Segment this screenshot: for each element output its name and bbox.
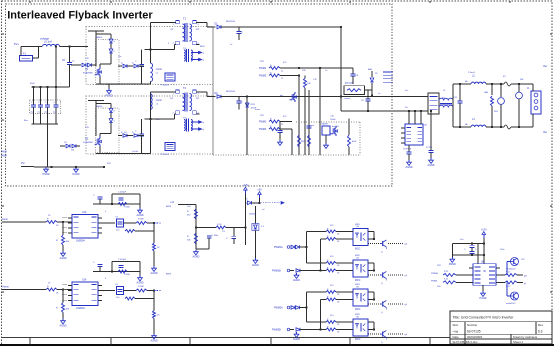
svg-text:R: R xyxy=(56,308,58,310)
svg-text:PWM4: PWM4 xyxy=(259,128,267,131)
svg-text:<Val: <Val xyxy=(453,329,459,333)
svg-text:1K: 1K xyxy=(337,273,340,275)
svg-text:Vo+: Vo+ xyxy=(405,90,409,92)
svg-text:2u2: 2u2 xyxy=(38,112,41,114)
svg-text:C10: C10 xyxy=(330,116,335,118)
svg-text:33T: 33T xyxy=(196,29,200,31)
svg-text:R 56K: R 56K xyxy=(138,286,144,288)
svg-text:Q2: Q2 xyxy=(85,138,89,141)
svg-text:C: C xyxy=(135,131,137,133)
svg-text:3: 3 xyxy=(198,94,200,96)
svg-text:LM2904: LM2904 xyxy=(76,307,85,310)
svg-text:TG: TG xyxy=(183,48,186,50)
svg-text:4N25: 4N25 xyxy=(355,255,361,257)
svg-text:AGND: AGND xyxy=(406,166,413,169)
svg-text:PWM2A: PWM2A xyxy=(274,307,283,310)
svg-text:1K: 1K xyxy=(337,241,340,243)
svg-text:C 470pF: C 470pF xyxy=(118,259,127,261)
svg-text:R: R xyxy=(327,236,329,238)
svg-text:RV1: RV1 xyxy=(494,111,499,113)
svg-text:R: R xyxy=(270,126,272,128)
svg-text:MOC: MOC xyxy=(355,339,361,341)
svg-text:MOC: MOC xyxy=(355,309,361,311)
svg-text:C: C xyxy=(93,262,95,264)
svg-text:1n: 1n xyxy=(230,44,232,46)
svg-text:AGND: AGND xyxy=(428,164,435,167)
svg-text:L2: L2 xyxy=(156,104,159,106)
svg-text:LM285: LM285 xyxy=(321,124,328,126)
svg-text:LM2904: LM2904 xyxy=(76,240,85,243)
svg-text:R: R xyxy=(187,211,189,213)
svg-text:ref: ref xyxy=(312,124,315,127)
svg-text:22: 22 xyxy=(281,71,284,73)
svg-text:R: R xyxy=(327,297,329,299)
svg-text:100K: 100K xyxy=(352,141,357,143)
svg-text:coil in: coil in xyxy=(156,99,163,102)
svg-text:sens: sens xyxy=(166,206,172,208)
svg-text:R: R xyxy=(270,73,272,75)
svg-text:Title: Grid Connected PV micr: Title: Grid Connected PV micro Inverter xyxy=(453,315,515,319)
svg-text:C 470pF: C 470pF xyxy=(118,192,127,194)
svg-text:C: C xyxy=(475,249,477,251)
svg-text:R15: R15 xyxy=(302,70,307,72)
svg-text:C5: C5 xyxy=(62,60,66,62)
svg-text:1n: 1n xyxy=(378,93,380,95)
svg-text:63-07135: 63-07135 xyxy=(467,329,481,333)
svg-text:TC4420: TC4420 xyxy=(161,85,170,87)
svg-text:R: R xyxy=(187,236,189,238)
svg-text:g6: g6 xyxy=(405,334,408,336)
svg-text:10n: 10n xyxy=(118,56,121,58)
svg-text:TG: TG xyxy=(183,118,186,120)
svg-text:C12: C12 xyxy=(313,79,318,81)
svg-text:csense: csense xyxy=(344,98,351,100)
svg-text:10n: 10n xyxy=(116,297,119,299)
svg-text:C: C xyxy=(135,61,137,63)
svg-text:1K: 1K xyxy=(48,215,51,217)
svg-text:1: 1 xyxy=(173,24,175,26)
svg-text:g5: g5 xyxy=(405,304,408,306)
svg-text:5: 5 xyxy=(105,211,107,213)
svg-text:100n: 100n xyxy=(500,249,504,251)
svg-text:R 56K: R 56K xyxy=(138,219,144,221)
svg-text:C11: C11 xyxy=(454,97,459,99)
svg-text:D1: D1 xyxy=(215,23,219,26)
svg-text:2: 2 xyxy=(168,43,170,45)
svg-text:1K: 1K xyxy=(56,293,59,295)
svg-text:P: P xyxy=(203,60,205,62)
svg-text:PWM1: PWM1 xyxy=(259,67,267,70)
svg-text:10K: 10K xyxy=(437,286,441,288)
svg-text:AGND: AGND xyxy=(293,279,300,282)
svg-text:22R: 22R xyxy=(260,61,264,63)
svg-text:SW: SW xyxy=(520,79,523,81)
svg-text:L2: L2 xyxy=(472,75,475,78)
svg-text:PGND: PGND xyxy=(106,95,113,98)
svg-text:470: 470 xyxy=(330,256,334,258)
svg-text:Q: Q xyxy=(381,283,383,285)
svg-text:Elec: Elec xyxy=(24,120,28,122)
svg-text:22: 22 xyxy=(281,124,284,126)
svg-text:P: P xyxy=(203,129,205,131)
svg-text:30/03/2009: 30/03/2009 xyxy=(467,335,482,339)
svg-text:PWM1B: PWM1B xyxy=(272,270,281,273)
svg-text:C: C xyxy=(464,249,466,251)
svg-text:U6: U6 xyxy=(356,317,360,319)
svg-text:Vref: Vref xyxy=(187,206,191,208)
svg-text:22R: 22R xyxy=(437,265,441,267)
svg-text:C: C xyxy=(45,102,47,104)
svg-text:+12: +12 xyxy=(170,202,175,204)
svg-text:D8: D8 xyxy=(71,150,75,152)
svg-text:4A: 4A xyxy=(465,123,468,126)
svg-text:gL: gL xyxy=(524,283,527,285)
svg-text:1K: 1K xyxy=(337,332,340,334)
svg-text:R: R xyxy=(327,229,329,231)
svg-text:Sheet 1: Sheet 1 xyxy=(513,340,523,344)
svg-text:R: R xyxy=(327,289,329,291)
svg-text:Rev: Rev xyxy=(538,323,544,327)
svg-text:L1: L1 xyxy=(156,73,159,75)
svg-text:1K: 1K xyxy=(337,294,340,296)
svg-text:R 22: R 22 xyxy=(444,279,449,281)
svg-text:0R1: 0R1 xyxy=(107,163,112,165)
svg-text:2u2: 2u2 xyxy=(31,112,34,114)
svg-text:PWML: PWML xyxy=(431,281,438,283)
svg-text:C3: C3 xyxy=(115,217,119,219)
svg-text:R 56K: R 56K xyxy=(124,207,130,209)
svg-text:R: R xyxy=(47,219,49,221)
svg-text:Number: Number xyxy=(467,323,477,327)
svg-text:BAS16: BAS16 xyxy=(96,36,103,39)
svg-text:1K: 1K xyxy=(337,324,340,326)
svg-text:22R: 22R xyxy=(260,115,264,117)
svg-text:AGND: AGND xyxy=(293,338,300,341)
svg-text:W-07135_R6.3.dsn: W-07135_R6.3.dsn xyxy=(453,340,478,344)
svg-text:sens: sens xyxy=(166,274,172,276)
svg-text:22: 22 xyxy=(281,78,284,80)
svg-text:C: C xyxy=(93,195,95,197)
svg-text:1%: 1% xyxy=(222,231,225,233)
svg-text:470: 470 xyxy=(330,285,334,287)
svg-text:1K: 1K xyxy=(337,265,340,267)
svg-text:D: D xyxy=(246,199,248,201)
svg-text:BAS: BAS xyxy=(368,68,373,71)
svg-text:R: R xyxy=(47,286,49,288)
svg-text:1.2: 1.2 xyxy=(261,226,265,228)
svg-text:4N25: 4N25 xyxy=(355,314,361,316)
svg-text:U5: U5 xyxy=(356,287,360,289)
svg-text:10K: 10K xyxy=(187,240,191,242)
svg-text:Q: Q xyxy=(381,342,383,344)
svg-text:PGND: PGND xyxy=(73,173,80,176)
svg-text:PWM2: PWM2 xyxy=(259,75,267,78)
svg-text:1n: 1n xyxy=(325,70,327,72)
svg-text:470: 470 xyxy=(330,315,334,317)
svg-text:LAB: LAB xyxy=(484,91,489,94)
svg-text:T1: T1 xyxy=(183,17,187,21)
svg-text:AGND: AGND xyxy=(60,325,67,328)
svg-text:AGND: AGND xyxy=(192,256,199,259)
svg-text:12V: 12V xyxy=(521,259,525,261)
svg-text:4A: 4A xyxy=(465,80,468,83)
svg-text:1K: 1K xyxy=(337,234,340,236)
svg-text:Vo-: Vo- xyxy=(405,107,408,109)
svg-text:10K: 10K xyxy=(66,241,70,243)
svg-text:C9: C9 xyxy=(361,100,365,102)
svg-text:Vsens: Vsens xyxy=(2,285,9,288)
svg-text:LF: LF xyxy=(443,90,446,92)
svg-text:U4: U4 xyxy=(356,258,360,260)
svg-text:PWM: PWM xyxy=(1,156,7,158)
svg-text:PWM2B: PWM2B xyxy=(272,329,281,332)
svg-text:TP PS: TP PS xyxy=(426,147,433,149)
svg-text:C: C xyxy=(114,51,116,53)
svg-text:R: R xyxy=(270,119,272,121)
svg-text:AGND: AGND xyxy=(60,257,67,260)
svg-text:PGND: PGND xyxy=(43,173,50,176)
svg-text:C: C xyxy=(241,32,243,34)
svg-text:mmbt2907: mmbt2907 xyxy=(506,302,516,305)
svg-text:FQA9N90: FQA9N90 xyxy=(83,141,94,144)
svg-text:MOC: MOC xyxy=(355,248,361,250)
svg-text:2u2: 2u2 xyxy=(45,112,48,114)
svg-text:1K: 1K xyxy=(56,225,59,227)
svg-text:U2A: U2A xyxy=(82,279,87,282)
svg-text:R 22: R 22 xyxy=(444,271,449,273)
svg-text:U3: U3 xyxy=(356,226,360,228)
svg-text:C: C xyxy=(31,102,33,104)
svg-text:C8: C8 xyxy=(356,75,360,77)
svg-text:10K: 10K xyxy=(307,83,311,85)
svg-text:470: 470 xyxy=(330,225,334,227)
svg-text:2u2: 2u2 xyxy=(53,112,56,114)
svg-text:Vac: Vac xyxy=(543,131,548,134)
svg-text:1K: 1K xyxy=(157,247,160,249)
svg-text:gH: gH xyxy=(524,276,527,278)
svg-text:MUR1560: MUR1560 xyxy=(226,21,236,23)
svg-text:R: R xyxy=(327,268,329,270)
svg-text:R 56K: R 56K xyxy=(124,274,130,276)
svg-text:MUR1560: MUR1560 xyxy=(226,91,236,93)
svg-text:T2: T2 xyxy=(183,86,187,90)
svg-text:F2: F2 xyxy=(503,76,506,78)
svg-text:RCD: RCD xyxy=(251,104,256,106)
svg-text:PWM1A: PWM1A xyxy=(274,246,283,249)
svg-text:D7: D7 xyxy=(64,142,68,144)
svg-text:R: R xyxy=(270,65,272,67)
svg-text:PWM: PWM xyxy=(1,152,7,154)
svg-text:bss123: bss123 xyxy=(332,126,339,128)
svg-text:+: + xyxy=(60,83,62,85)
svg-text:R 1K: R 1K xyxy=(217,224,222,226)
svg-text:AGND: AGND xyxy=(252,264,259,267)
svg-text:10T: 10T xyxy=(170,29,174,31)
svg-text:g4: g4 xyxy=(405,275,408,277)
svg-text:33T: 33T xyxy=(196,98,200,100)
svg-text:F1: F1 xyxy=(23,52,26,55)
svg-text:R7 0.05: R7 0.05 xyxy=(345,83,354,85)
svg-text:U1A: U1A xyxy=(82,211,87,214)
svg-text:C: C xyxy=(38,102,40,104)
svg-text:R: R xyxy=(56,240,58,242)
svg-text:Isens: Isens xyxy=(255,109,261,111)
svg-text:Date: Date xyxy=(453,335,459,339)
svg-text:+12V: +12V xyxy=(481,229,487,232)
svg-text:FQA9N90: FQA9N90 xyxy=(83,72,94,75)
svg-text:dvr: dvr xyxy=(280,94,283,97)
svg-text:C: C xyxy=(241,102,243,104)
svg-text:PGND: PGND xyxy=(480,297,487,300)
svg-text:Vac: Vac xyxy=(543,65,548,68)
svg-text:AGND: AGND xyxy=(151,272,158,275)
svg-text:1u: 1u xyxy=(72,61,75,63)
svg-text:Isens: Isens xyxy=(2,218,9,221)
svg-text:TOP249: TOP249 xyxy=(403,149,412,151)
svg-text:R: R xyxy=(327,327,329,329)
svg-text:5: 5 xyxy=(105,278,107,280)
svg-text:1K: 1K xyxy=(337,302,340,304)
svg-text:TC4420: TC4420 xyxy=(161,154,170,156)
svg-text:AGND: AGND xyxy=(151,340,158,343)
svg-text:4K7: 4K7 xyxy=(187,215,192,217)
svg-text:BAS16: BAS16 xyxy=(96,105,103,108)
svg-text:P: P xyxy=(203,122,205,124)
svg-text:+12V: +12V xyxy=(242,184,248,187)
svg-text:R: R xyxy=(327,260,329,262)
svg-text:PWM3: PWM3 xyxy=(259,121,267,124)
svg-text:1K: 1K xyxy=(48,283,51,285)
svg-text:AGND: AGND xyxy=(137,282,144,285)
svg-text:IR: IR xyxy=(483,269,486,273)
svg-text:LM285: LM285 xyxy=(249,214,256,216)
svg-text:Q: Q xyxy=(381,312,383,314)
svg-text:D: D xyxy=(114,111,116,113)
svg-text:Drawn by nsubrama: Drawn by nsubrama xyxy=(513,335,538,339)
svg-text:J1: J1 xyxy=(527,88,530,90)
svg-text:PV+: PV+ xyxy=(14,42,19,46)
svg-text:mmbt2222: mmbt2222 xyxy=(506,267,516,270)
svg-text:L5 1uH: L5 1uH xyxy=(44,41,52,44)
svg-text:MOC: MOC xyxy=(355,280,361,282)
svg-text:U5: U5 xyxy=(424,125,428,127)
svg-text:10T: 10T xyxy=(170,98,174,100)
svg-text:C: C xyxy=(54,102,56,104)
svg-text:10u: 10u xyxy=(460,239,463,241)
svg-text:C: C xyxy=(226,238,228,240)
svg-text:PWMH: PWMH xyxy=(431,273,438,275)
svg-text:3: 3 xyxy=(198,24,200,26)
svg-text:C 100n: C 100n xyxy=(212,235,220,237)
svg-text:Interleaved Flyback Inverter: Interleaved Flyback Inverter xyxy=(7,9,153,21)
svg-text:L3: L3 xyxy=(472,118,475,121)
svg-text:100nF: 100nF xyxy=(330,119,336,121)
svg-text:400V: 400V xyxy=(30,83,35,85)
svg-text:MUR: MUR xyxy=(200,46,205,48)
svg-text:R: R xyxy=(327,319,329,321)
svg-text:470: 470 xyxy=(283,116,287,118)
svg-text:D2: D2 xyxy=(215,92,219,95)
svg-text:2.2mH: 2.2mH xyxy=(468,72,475,74)
svg-text:D: D xyxy=(114,41,116,43)
svg-text:10K: 10K xyxy=(66,309,70,311)
svg-text:+5V: +5V xyxy=(257,189,262,192)
svg-text:D5: D5 xyxy=(375,73,379,75)
svg-text:Size: Size xyxy=(453,323,459,327)
svg-text:ref: ref xyxy=(262,209,265,211)
svg-text:P: P xyxy=(203,53,205,55)
svg-text:4N25: 4N25 xyxy=(355,284,361,286)
svg-text:1: 1 xyxy=(173,94,175,96)
svg-text:Q: Q xyxy=(381,252,383,254)
svg-text:C: C xyxy=(114,121,116,123)
svg-text:Q4 drv: Q4 drv xyxy=(132,151,138,153)
svg-text:coil in: coil in xyxy=(156,68,163,71)
svg-text:470: 470 xyxy=(283,62,287,64)
svg-text:10n: 10n xyxy=(116,230,119,232)
svg-text:1K: 1K xyxy=(157,315,160,317)
svg-text:Q1: Q1 xyxy=(85,68,89,71)
svg-text:g3: g3 xyxy=(405,244,408,246)
svg-text:C3: C3 xyxy=(115,284,119,286)
svg-text:PGND: PGND xyxy=(449,263,456,266)
svg-text:6.3: 6.3 xyxy=(538,329,543,333)
svg-text:PV-: PV- xyxy=(21,161,25,165)
svg-text:AGND: AGND xyxy=(137,214,144,217)
